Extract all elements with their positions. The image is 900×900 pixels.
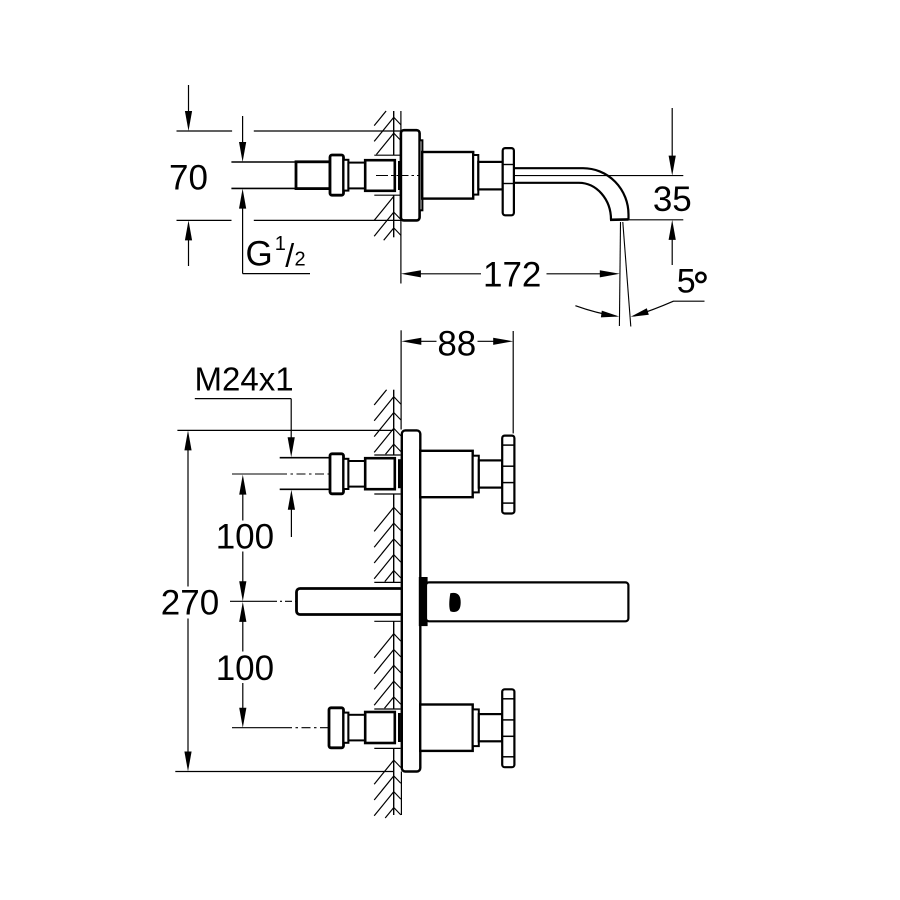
- hatch boundary lines (top view): [374, 154, 400, 156]
- cross handle bar (upper handle): [502, 436, 514, 514]
- hatch boundary lines (upper handle): [374, 454, 400, 456]
- dim 172 right arrow: [547, 273, 602, 275]
- svg-text:100: 100: [216, 649, 274, 688]
- dim 270 line upper part: [184, 430, 191, 450]
- G1/2 lower arrow and leader: [242, 207, 244, 274]
- hatch boundary lines (lower handle): [374, 708, 400, 710]
- dim 88 right arrow: [478, 340, 495, 342]
- step ring (upper handle): [473, 456, 479, 493]
- G1/2 upper arrow: [242, 116, 244, 144]
- svg-text:35: 35: [653, 180, 692, 219]
- svg-text:70: 70: [169, 159, 208, 198]
- GROHE logo mark on spout: [449, 593, 460, 612]
- wall coupling (upper handle): [365, 458, 395, 489]
- pipe end bar behind wall (top view): [398, 161, 401, 190]
- dim 70 upper arrow: [188, 85, 190, 113]
- 88 left extension / plate edge line upper: [400, 330, 402, 429]
- step ring (lower handle): [473, 709, 479, 746]
- valve mid tube (upper handle): [348, 461, 365, 487]
- nut step (top view): [344, 160, 349, 191]
- svg-text:5: 5: [677, 262, 696, 300]
- valve mid tube (top view): [348, 163, 365, 189]
- cross handle inner lines (upper handle): [502, 444, 514, 446]
- cross handle bar (lower handle): [502, 689, 514, 767]
- svg-text:172: 172: [483, 256, 541, 295]
- M24x1 leader: [195, 398, 291, 400]
- spout centerline (bottom view): [230, 600, 270, 602]
- spout rosette bar (top view): [503, 148, 514, 215]
- svg-text:G: G: [246, 235, 273, 274]
- valve mid tube (lower handle): [348, 715, 365, 741]
- M24x1 upper arrow: [288, 437, 295, 457]
- svg-text:/: /: [285, 237, 294, 273]
- water stream right line: [623, 222, 631, 327]
- thread nipple (top view): [296, 162, 330, 189]
- spout rough-in pipe (bottom view): [297, 589, 404, 615]
- dim 270 upper extension line: [177, 429, 393, 431]
- wall face line (top view): [393, 111, 395, 155]
- svg-text:270: 270: [161, 584, 219, 623]
- cartridge (lower handle): [420, 705, 473, 751]
- flange lip (top view): [420, 140, 423, 210]
- hatch boundary lines (spout row): [374, 581, 400, 583]
- cartridge (upper handle): [420, 451, 473, 497]
- svg-text:100: 100: [216, 517, 274, 556]
- spout body cartridge (top view): [422, 152, 473, 199]
- wall inner line / 172 extension line (top view): [400, 111, 402, 284]
- dim 35 upper arrow: [671, 108, 673, 157]
- dim 270 lower extension line: [175, 771, 393, 773]
- dim 35 lower arrow: [671, 239, 673, 266]
- dim 70 lower extension line: [177, 219, 232, 221]
- rosette inner lines (top view): [503, 164, 514, 166]
- supply pipe M24 (upper handle): [280, 457, 330, 459]
- dim 100b upper arrow: [239, 602, 246, 622]
- handle shank (upper handle): [479, 460, 502, 487]
- svg-text:1: 1: [275, 233, 286, 255]
- spout centerline / 35 upper reference (top view): [514, 175, 683, 177]
- spout shank (top view): [478, 162, 502, 190]
- nut step (lower handle): [344, 713, 349, 743]
- dim 172 left arrow: [401, 270, 421, 277]
- plate edge line lower: [400, 772, 402, 816]
- dim 70 lower arrow: [188, 239, 190, 266]
- water stream left line: [619, 222, 620, 326]
- dim 100b lower arrow: [242, 683, 244, 709]
- dim 88 right extension line: [512, 331, 514, 433]
- lower handle centerline: [232, 727, 283, 729]
- wall hatching (bottom view): [374, 390, 386, 405]
- dim 100a lower arrow: [242, 552, 244, 583]
- valve centerline (top view): [376, 175, 419, 177]
- 5 deg left leader: [575, 306, 616, 317]
- pipe end bar behind wall (upper handle): [398, 459, 401, 488]
- G1/2 leader underline: [243, 273, 310, 275]
- dim 35 lower reference line: [629, 219, 684, 221]
- svg-text:88: 88: [437, 324, 476, 363]
- wall coupling (top view): [365, 160, 395, 191]
- union nut (upper handle): [330, 454, 344, 494]
- handle shank (lower handle): [479, 714, 502, 741]
- pipe end bar behind wall (lower handle): [398, 713, 401, 742]
- 5 deg right leader: [634, 301, 705, 316]
- cross handle inner lines (lower handle): [502, 698, 514, 700]
- dim 270 line lower part: [187, 619, 189, 754]
- spout tube fill (top view): [514, 168, 629, 220]
- wall hatching (top view): [374, 111, 386, 126]
- wall face line (bottom view): [393, 390, 395, 455]
- spout tube top outline (top view): [514, 168, 629, 219]
- spout outlet face (top view): [610, 218, 629, 221]
- upper handle centerline: [232, 473, 278, 475]
- M24x1 lower arrow: [288, 490, 295, 510]
- supply pipe G1/2 (top view): [231, 161, 296, 163]
- dim 100a upper arrow: [239, 475, 246, 495]
- spout body (bottom view): [426, 582, 628, 621]
- wall flange (top view): [401, 130, 420, 220]
- dim 88 left arrow: [401, 338, 421, 345]
- wall coupling (lower handle): [365, 712, 395, 743]
- spout tube inner outline (top view): [514, 183, 611, 220]
- svg-text:2: 2: [295, 249, 306, 271]
- mounting plate (bottom view): [402, 430, 421, 771]
- cartridge step ring (top view): [473, 155, 478, 195]
- union nut (lower handle): [329, 708, 344, 748]
- svg-text:M24x1: M24x1: [195, 361, 294, 398]
- nut step (upper handle): [344, 459, 349, 489]
- union nut (top view): [330, 155, 344, 195]
- dim 70 upper extension line: [177, 130, 233, 132]
- spout rosette ring (bottom view): [420, 578, 426, 625]
